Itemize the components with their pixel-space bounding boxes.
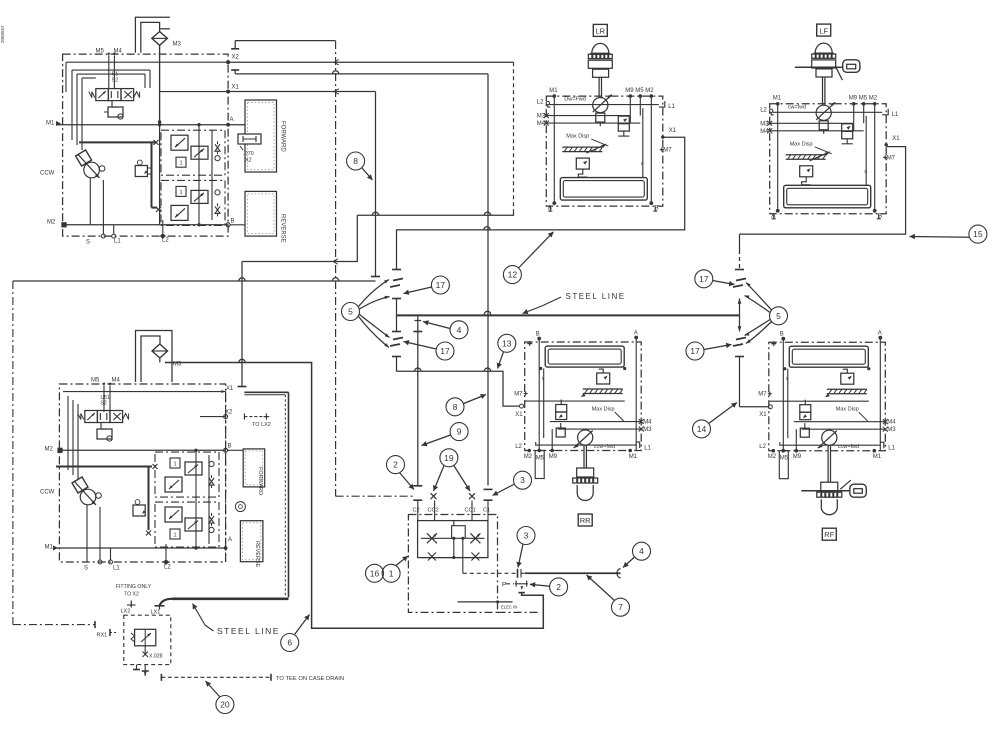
coupler cluster right upper coupling halves <box>736 279 746 281</box>
motor LR enclosure border <box>546 96 663 206</box>
motor RR x rail <box>543 369 545 439</box>
callout 6 <box>281 634 299 652</box>
coupler cluster left upper segment <box>396 230 398 269</box>
svg-text:X1: X1 <box>226 386 234 392</box>
svg-text:X.028: X.028 <box>149 654 163 660</box>
wire C2 coupler caps <box>413 485 422 487</box>
svg-text:ELEC IN: ELEC IN <box>501 604 517 609</box>
wire X2 dashed drop at x=515 <box>513 62 515 211</box>
svg-text:FITTING ONLY: FITTING ONLY <box>116 584 152 590</box>
svg-text:TO TEE ON CASE DRAIN: TO TEE ON CASE DRAIN <box>276 676 344 682</box>
pump P2 lower control block <box>155 502 219 547</box>
motor LR sensor box under motor <box>596 113 605 122</box>
svg-text:M1: M1 <box>549 88 558 94</box>
callout 14 <box>693 420 711 438</box>
svg-text:17: 17 <box>440 346 450 356</box>
callout 17 lower left <box>436 342 454 360</box>
svg-text:S2: S2 <box>112 78 119 84</box>
pump P2 pilot valve under DCV <box>101 423 107 430</box>
svg-text:17: 17 <box>699 274 709 284</box>
wire left edge drop dash-dot <box>12 281 14 625</box>
motor RF sensor box above motor <box>800 428 809 437</box>
pump P1 charge filter diamond <box>152 32 168 46</box>
callout 5 right with fan leaders <box>770 307 788 325</box>
svg-text:15: 15 <box>973 229 983 239</box>
svg-text:6: 6 <box>287 638 292 648</box>
motor RF variable motor circle <box>822 430 837 445</box>
wire LR X1 to left coupler header <box>397 137 685 230</box>
motor RF port stubs left of B <box>771 343 776 345</box>
pump P1 lower control block <box>161 180 225 225</box>
svg-text:1: 1 <box>173 533 176 539</box>
svg-text:9: 9 <box>457 427 462 437</box>
motor LR drive shaft <box>598 77 600 97</box>
motor LF A B ports <box>776 209 780 213</box>
wire left long header y281 <box>13 280 376 282</box>
svg-text:8: 8 <box>453 402 458 412</box>
pump P1 reverse block <box>245 191 277 236</box>
motor RR B A port labels <box>537 337 541 341</box>
svg-text:L2: L2 <box>759 444 766 450</box>
wire right coupler to RF X1 pilot <box>740 406 768 408</box>
callout 7 <box>612 598 630 616</box>
pump P2 upper control block <box>155 452 219 497</box>
motor LF sensor box under motor <box>819 121 828 130</box>
svg-text:5: 5 <box>348 307 353 317</box>
svg-text:M9: M9 <box>549 454 558 460</box>
motor LR wheel label box <box>593 24 607 36</box>
callout 4 left <box>450 321 468 339</box>
pump P2 charge filter diamond <box>152 344 168 358</box>
manifold elec in line <box>458 601 513 603</box>
pump P1 upper control block <box>161 130 225 175</box>
svg-text:C2: C2 <box>413 508 420 514</box>
pump P1 forward block <box>245 100 277 172</box>
motor RR M5 box stub <box>535 451 544 479</box>
callout 15 <box>969 225 987 243</box>
manifold CC1 plug X <box>469 493 475 499</box>
wire line D down to left header <box>375 92 377 277</box>
callout 3 upper <box>514 471 532 489</box>
motor RR mid rail <box>525 400 625 402</box>
svg-text:L1: L1 <box>113 566 120 572</box>
motor RF servo swash symbol <box>827 388 867 390</box>
pump P2 charge relief valve <box>133 505 145 516</box>
svg-text:M4: M4 <box>112 378 121 384</box>
pump P2 heavy supply rails <box>56 466 152 468</box>
svg-text:A: A <box>771 212 776 219</box>
svg-text:Dw=Fwd: Dw=Fwd <box>564 97 586 103</box>
motor LR pressure compensator valve <box>618 116 629 124</box>
pump P1 enclosure border <box>63 54 229 236</box>
manifold port stubs <box>417 501 419 521</box>
motor RF drive shaft <box>827 446 829 483</box>
svg-text:FORWARD: FORWARD <box>257 467 263 495</box>
svg-text:M2: M2 <box>524 454 533 460</box>
svg-text:4: 4 <box>639 546 644 556</box>
svg-text:TO X2: TO X2 <box>124 592 139 598</box>
svg-text:M5: M5 <box>536 456 545 462</box>
callout 1 <box>382 564 400 582</box>
pump P1 X2 aux tee <box>234 41 236 49</box>
svg-text:M4: M4 <box>887 420 896 426</box>
motor LR flushing shuttle box <box>560 178 647 201</box>
svg-text:x: x <box>864 169 867 175</box>
fitting block RX1 line <box>13 624 95 626</box>
svg-text:M3: M3 <box>537 114 546 120</box>
pump P2 aux circle symbol <box>235 502 245 512</box>
svg-text:RX1: RX1 <box>97 633 108 639</box>
motor RF enclosure border <box>769 342 886 451</box>
motor RR wheel symbol <box>577 468 594 477</box>
svg-text:TO LX2: TO LX2 <box>252 422 271 428</box>
pump P1 pilot valve under DCV <box>112 101 118 107</box>
svg-text:B: B <box>780 332 784 338</box>
svg-text:M1: M1 <box>773 96 782 102</box>
motor RF wheel symbol <box>821 482 838 491</box>
motor LF drive shaft <box>822 77 824 105</box>
svg-text:B: B <box>228 444 232 450</box>
pump P2 reverse block <box>240 521 263 562</box>
svg-text:M1: M1 <box>873 454 882 460</box>
motor LF side rails <box>777 104 779 211</box>
svg-text:X2: X2 <box>245 158 252 164</box>
coupler cluster right bottom segment <box>735 356 744 358</box>
svg-text:A: A <box>228 537 232 543</box>
motor LF axle and hub <box>795 66 843 68</box>
svg-text:3: 3 <box>524 531 529 541</box>
steel line heavy bottom run <box>172 597 289 600</box>
callout 13 <box>498 334 516 352</box>
motor LR x rail <box>642 108 644 178</box>
motor RR sensor box above motor <box>556 428 565 437</box>
svg-text:Max Disp: Max Disp <box>836 407 859 413</box>
svg-text:REVERSE: REVERSE <box>254 541 260 568</box>
callout 19 with two leaders <box>440 449 458 467</box>
wire C2 branch from steel line <box>417 316 419 485</box>
wire line C down to manifold C1 <box>487 74 489 486</box>
pump P2 directional control valve <box>85 411 98 423</box>
svg-text:LF: LF <box>819 26 828 35</box>
wire X2 pilot main from pump P1 <box>228 61 513 63</box>
motor RR M9 stub <box>551 429 553 451</box>
callout 16 <box>366 564 384 582</box>
manifold internal valves row 2 <box>428 553 436 561</box>
motor LF x rail <box>865 116 867 186</box>
svg-text:LX2: LX2 <box>121 609 131 615</box>
svg-text:L1: L1 <box>668 104 675 110</box>
pump P1 charge filter hood <box>135 17 170 53</box>
callout 8 top <box>347 152 365 170</box>
svg-text:1: 1 <box>173 462 176 468</box>
svg-text:M2: M2 <box>768 454 777 460</box>
svg-text:M7: M7 <box>887 155 896 161</box>
case drain dashed line <box>160 674 162 681</box>
motor LR wheel symbol <box>592 43 609 53</box>
coupler cluster right upper segment <box>739 234 741 250</box>
svg-text:M2: M2 <box>47 220 56 226</box>
wire LF X1 to right coupler header <box>740 147 906 235</box>
svg-text:5: 5 <box>776 311 781 321</box>
motor LF enclosure border <box>770 104 887 214</box>
svg-text:x: x <box>786 376 789 382</box>
svg-text:19: 19 <box>444 453 454 463</box>
motor LF wheel symbol <box>815 43 832 53</box>
coupler cluster left mid segment <box>392 298 401 300</box>
svg-text:M1: M1 <box>629 454 638 460</box>
pump P2 servo and pump circles <box>72 477 88 493</box>
svg-text:B: B <box>654 205 658 212</box>
svg-text:L1: L1 <box>644 446 651 452</box>
motor LR servo swash symbol <box>562 146 602 148</box>
coupler cluster left lower coupling halves <box>393 338 403 340</box>
svg-text:REVERSE: REVERSE <box>280 214 286 243</box>
svg-text:M4: M4 <box>537 121 546 127</box>
wire pump P2 steel line to LX1 <box>244 391 288 393</box>
motor RF x rail <box>787 369 789 439</box>
svg-text:B: B <box>231 219 235 225</box>
svg-text:M9 M5 M2: M9 M5 M2 <box>849 96 878 102</box>
callout 20 <box>216 696 234 714</box>
svg-text:L2: L2 <box>537 100 544 106</box>
pump P1 X1 aux tee <box>234 70 236 74</box>
svg-text:x: x <box>542 376 545 382</box>
motor RR wheel label box <box>578 514 592 526</box>
svg-text:CCW: CCW <box>40 171 55 177</box>
motor RF pressure compensator valve <box>800 405 811 413</box>
callout 3 lower <box>517 527 535 545</box>
svg-text:A: A <box>548 205 553 212</box>
motor LR main rail L2-L1 <box>549 104 659 106</box>
pump P1 filter down line <box>159 45 161 122</box>
pump P2 enclosure border <box>59 384 225 562</box>
svg-text:M2: M2 <box>45 447 54 453</box>
manifold steel pipe to right <box>525 572 621 574</box>
svg-text:M4: M4 <box>643 420 652 426</box>
manifold valve block border <box>408 515 497 613</box>
svg-text:M5: M5 <box>96 49 105 55</box>
svg-text:cw=fwd: cw=fwd <box>788 104 807 110</box>
pump P1 directional control valve <box>96 89 109 101</box>
motor LF flushing shuttle box <box>784 185 871 208</box>
svg-text:L1: L1 <box>892 112 899 118</box>
svg-text:17: 17 <box>436 280 446 290</box>
svg-text:X2: X2 <box>232 55 240 61</box>
motor RR flushing shuttle box <box>545 346 624 367</box>
svg-text:1: 1 <box>179 161 182 167</box>
motor LF relief valve <box>800 166 813 177</box>
svg-text:2: 2 <box>393 460 398 470</box>
motor RF relief valve <box>841 373 854 384</box>
motor RF M5 box stub <box>779 451 788 479</box>
motor LR relief valve <box>576 158 589 169</box>
svg-text:7: 7 <box>618 602 623 612</box>
motor RR drive shaft <box>583 446 585 469</box>
svg-text:M1: M1 <box>45 545 54 551</box>
svg-text:S: S <box>86 240 90 246</box>
svg-text:M9 M5 M2: M9 M5 M2 <box>625 88 654 94</box>
motor LF servo swash symbol <box>786 154 826 156</box>
svg-text:Max Disp: Max Disp <box>790 141 813 147</box>
svg-text:STEEL LINE: STEEL LINE <box>566 292 626 301</box>
svg-text:M4: M4 <box>760 129 769 135</box>
pump P1 charge relief valve <box>135 166 147 177</box>
coupler cluster right lower coupling halves <box>736 338 746 340</box>
svg-text:M5: M5 <box>780 456 789 462</box>
coupler cluster left upper coupling halves <box>393 279 403 281</box>
svg-text:S: S <box>84 566 88 572</box>
fitting block drain ports <box>136 665 138 670</box>
svg-text:Max Disp: Max Disp <box>566 134 589 140</box>
svg-text:LX1: LX1 <box>151 610 161 616</box>
callout 17 lower right <box>686 342 704 360</box>
svg-text:14: 14 <box>697 424 707 434</box>
svg-text:M3: M3 <box>760 121 769 127</box>
motor RF M9 stub <box>795 429 797 451</box>
callout 17 upper left <box>431 276 449 294</box>
pump P1 internal top rail <box>66 61 228 63</box>
svg-text:X1: X1 <box>232 85 240 91</box>
svg-text:M7: M7 <box>663 148 672 154</box>
svg-text:L2: L2 <box>515 444 522 450</box>
svg-text:M3: M3 <box>173 42 182 48</box>
svg-text:1: 1 <box>389 568 394 578</box>
svg-text:STEEL LINE: STEEL LINE <box>217 626 280 636</box>
svg-text:LR: LR <box>596 27 606 36</box>
svg-text:RR: RR <box>580 516 591 525</box>
svg-text:X1: X1 <box>759 412 767 418</box>
coupler cluster left bottom segment <box>392 356 401 358</box>
steel line dash-dot horizontal to C2 <box>336 495 414 497</box>
callout 17 upper right <box>695 270 713 288</box>
svg-text:A: A <box>634 331 638 337</box>
svg-text:.070: .070 <box>243 151 254 157</box>
svg-text:X1: X1 <box>892 136 900 142</box>
svg-text:CC1: CC1 <box>465 508 476 514</box>
svg-text:M5: M5 <box>91 378 100 384</box>
wire steel line main horizontal <box>397 314 740 316</box>
svg-text:X1: X1 <box>515 412 523 418</box>
manifold CC2 plug X <box>431 493 437 499</box>
svg-text:A: A <box>230 117 234 123</box>
motor RF wheel label box <box>822 528 836 540</box>
svg-text:16: 16 <box>370 568 380 578</box>
pump P1 orifice to X2 <box>238 134 261 144</box>
pump P2 filter to case line <box>159 358 161 363</box>
svg-text:4: 4 <box>457 325 462 335</box>
svg-text:M3: M3 <box>887 427 896 433</box>
wire case drain steel loop <box>165 363 543 629</box>
svg-text:3: 3 <box>520 475 525 485</box>
motor LR variable motor circle <box>593 98 608 113</box>
pump P1 inner vertical rails to B <box>198 125 200 225</box>
pump P2 charge filter hood <box>136 331 173 383</box>
pump P2 right border dashes <box>225 392 227 563</box>
svg-text:B: B <box>878 212 882 219</box>
svg-text:M3: M3 <box>643 427 652 433</box>
manifold center gallery <box>452 526 466 539</box>
callout 2 right <box>550 578 568 596</box>
svg-text:L1: L1 <box>114 239 121 245</box>
svg-text:20: 20 <box>220 700 230 710</box>
motor RR side rails <box>538 339 540 451</box>
svg-text:X1: X1 <box>669 128 677 134</box>
pump P2 forward block <box>243 449 265 487</box>
svg-text:1: 1 <box>179 190 182 196</box>
svg-text:CCW: CCW <box>40 490 55 496</box>
svg-text:P: P <box>502 582 506 589</box>
pump P2 B port <box>224 448 228 452</box>
manifold internal valves row 1 <box>421 537 485 539</box>
svg-text:C1: C1 <box>483 508 490 514</box>
motor RF B A port labels <box>781 337 785 341</box>
callout 5 left with fan leaders <box>342 303 360 321</box>
steel line dash-dot vertical <box>335 41 337 496</box>
svg-text:x: x <box>641 161 644 167</box>
svg-text:M7: M7 <box>758 392 767 398</box>
fitting block orifice <box>144 646 146 655</box>
callout 12 <box>503 266 521 284</box>
manifold P port structure <box>517 569 519 578</box>
svg-text:17: 17 <box>690 346 700 356</box>
motor RF side rails <box>782 339 784 451</box>
motor RR variable motor circle <box>578 430 593 445</box>
wire C1 coupler caps <box>484 488 493 490</box>
svg-text:A: A <box>878 331 882 337</box>
wire X2 aux stub <box>235 40 335 42</box>
pump P2 TO LX2 stub <box>244 416 266 418</box>
svg-text:L1: L1 <box>888 446 895 452</box>
manifold inner box <box>418 521 488 558</box>
svg-text:M7: M7 <box>514 392 523 398</box>
fitting block border <box>124 615 171 664</box>
wire X1 pilot from pump P1 <box>228 91 375 93</box>
wire X2 pilot return path <box>357 212 513 216</box>
motor LF pressure compensator valve <box>842 124 853 132</box>
svg-text:Max Disp: Max Disp <box>592 407 615 413</box>
motor RF mid rail <box>769 400 869 402</box>
pump P1 heavy supply rails <box>79 141 156 143</box>
motor LR A B ports <box>552 201 556 205</box>
svg-text:L2: L2 <box>164 565 171 571</box>
wire X1 aux line to C1 drop <box>235 73 488 75</box>
motor LR side rails <box>553 96 555 203</box>
pump P2 inner vertical rails <box>195 450 197 548</box>
coupler cluster right mid segment with arrows <box>739 299 741 332</box>
svg-text:B: B <box>536 332 540 338</box>
svg-text:8: 8 <box>353 156 358 166</box>
svg-text:RF: RF <box>824 530 834 539</box>
manifold pilot out line <box>462 538 464 573</box>
motor RR relief valve <box>597 373 610 384</box>
pump P2 left rails <box>67 396 69 470</box>
svg-text:12: 12 <box>508 270 518 280</box>
pump P1 left rails <box>71 70 73 140</box>
motor RF axle and hub <box>801 490 849 492</box>
svg-text:FORWARD: FORWARD <box>280 121 286 152</box>
motor RR enclosure border <box>525 342 642 451</box>
pump P1 servo and pump circles <box>76 150 92 166</box>
manifold bottom border extension <box>498 611 541 613</box>
fitting block relief valve <box>135 629 156 646</box>
svg-text:M9: M9 <box>793 454 802 460</box>
wire pilot drop to pump P2 X1 <box>241 262 243 385</box>
wire left coupler to RR X1 pilot <box>397 371 520 406</box>
svg-text:S2: S2 <box>101 401 107 407</box>
callout 8 mid <box>446 398 464 416</box>
callout 9 <box>450 423 468 441</box>
svg-text:CC2: CC2 <box>428 508 439 514</box>
